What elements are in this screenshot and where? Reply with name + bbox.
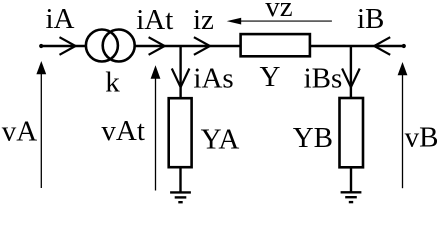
admittance Y (series box)	[241, 34, 310, 56]
svg-text:Y: Y	[260, 61, 281, 93]
ground (below YB)	[341, 192, 362, 202]
voltage arrow vB	[398, 62, 408, 188]
admittance YA (shunt box)	[169, 98, 192, 167]
svg-text:iAs: iAs	[193, 62, 233, 94]
svg-text:vAt: vAt	[101, 115, 144, 147]
wire: transformer to Y box	[135, 45, 240, 48]
wire: YA to ground	[179, 167, 181, 192]
ground (below YA)	[170, 192, 191, 202]
svg-text:vz: vz	[265, 0, 293, 23]
wire: YB to ground	[350, 167, 352, 192]
current arrow iB	[374, 37, 390, 55]
svg-text:iBs: iBs	[304, 63, 343, 95]
svg-text:YB: YB	[293, 122, 333, 154]
svg-text:iz: iz	[193, 4, 214, 36]
node: right terminal dot	[402, 44, 406, 48]
svg-text:iB: iB	[357, 3, 384, 35]
svg-text:YA: YA	[201, 123, 240, 155]
current arrow iz	[194, 37, 210, 55]
node: left terminal dot	[39, 44, 43, 48]
current arrow iAs	[172, 69, 190, 88]
wire: junction down to YB	[350, 46, 352, 99]
wire: Y box to right terminal	[311, 45, 404, 48]
voltage arrow vAt	[151, 65, 161, 190]
voltage arrow vA	[36, 61, 46, 188]
svg-text:vB: vB	[405, 122, 439, 154]
voltage arrow vz	[227, 18, 332, 25]
svg-text:k: k	[105, 67, 120, 99]
wire: junction down to YA	[179, 46, 181, 99]
wire: left terminal to transformer	[41, 45, 85, 48]
current arrow iBs	[342, 69, 360, 88]
current arrow iAt	[149, 37, 165, 55]
svg-text:iA: iA	[46, 3, 75, 35]
svg-text:vA: vA	[2, 116, 38, 148]
svg-text:iAt: iAt	[136, 4, 173, 36]
transformer k (coupled coils)	[86, 30, 135, 62]
admittance YB (shunt box)	[340, 98, 364, 167]
current arrow iA	[60, 37, 76, 55]
